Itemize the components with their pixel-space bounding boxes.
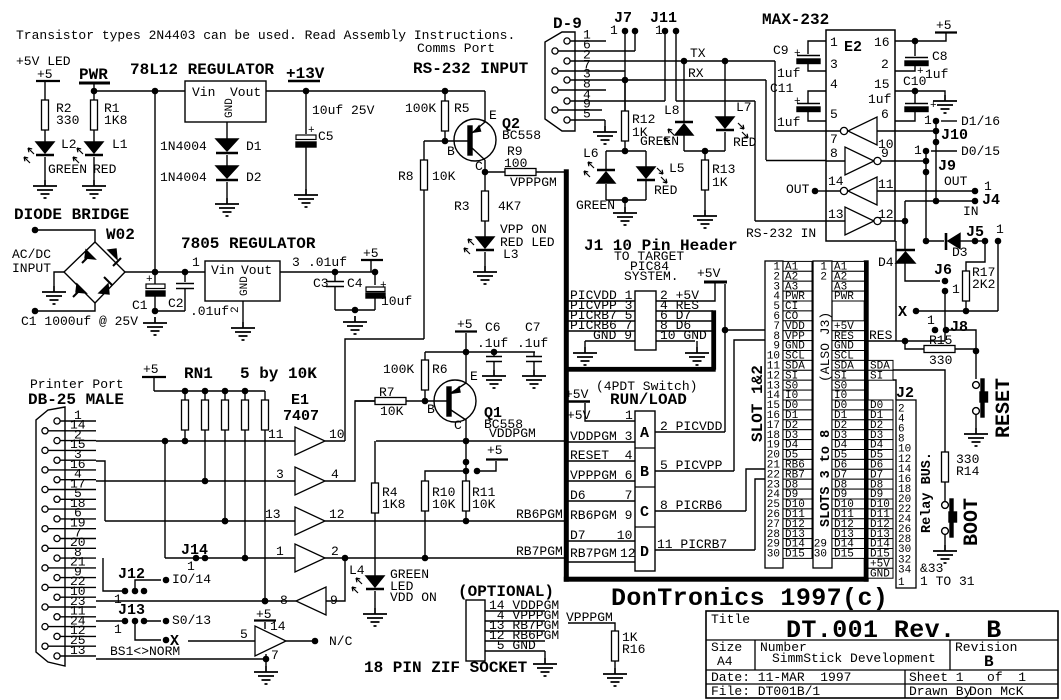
svg-text:1: 1 <box>996 222 1004 237</box>
wire collector <box>484 160 486 172</box>
terminal <box>32 227 37 232</box>
resistor R4 <box>374 441 376 483</box>
svg-text:RED: RED <box>733 135 757 150</box>
svg-text:5 GND: 5 GND <box>489 638 536 653</box>
svg-text:C1: C1 <box>132 298 148 313</box>
svg-text:5 by 10K: 5 by 10K <box>240 365 317 383</box>
svg-text:R5: R5 <box>454 101 470 116</box>
svg-text:3: 3 <box>830 57 838 72</box>
resistor R13 <box>704 151 706 160</box>
svg-text:GND: GND <box>870 568 890 580</box>
wire row pin3 jog <box>96 461 105 521</box>
ground <box>533 658 557 676</box>
svg-text:Don McK: Don McK <box>969 684 1024 699</box>
wire collector Q1 <box>465 419 467 441</box>
svg-text:GREEN: GREEN <box>576 198 615 213</box>
wire SI to J2 <box>893 380 896 400</box>
svg-text:Relay BUS.: Relay BUS. <box>920 452 935 533</box>
svg-text:(ALSO J3): (ALSO J3) <box>818 312 833 382</box>
svg-text:L3: L3 <box>503 247 519 262</box>
ground <box>363 608 387 626</box>
wire D9 pin4 row <box>570 100 755 102</box>
wire ZIF rows <box>485 611 545 651</box>
svg-text:1uf: 1uf <box>777 66 800 81</box>
ground <box>685 347 709 365</box>
svg-text:1N4004: 1N4004 <box>160 139 207 154</box>
LED L8 <box>683 61 685 122</box>
connector J3 pin column <box>813 261 832 568</box>
svg-text:L1: L1 <box>112 137 128 152</box>
svg-text:.01uf: .01uf <box>190 304 229 319</box>
ground <box>42 286 66 304</box>
svg-text:D1: D1 <box>246 139 262 154</box>
svg-text:1 TO 31: 1 TO 31 <box>920 574 975 589</box>
svg-text:+5: +5 <box>363 246 379 261</box>
jumper J9 <box>923 158 928 163</box>
wire jog 165 <box>96 441 165 558</box>
svg-text:18 PIN ZIF SOCKET: 18 PIN ZIF SOCKET <box>364 659 528 677</box>
node junction <box>91 88 96 93</box>
svg-text:.1uf: .1uf <box>477 336 508 351</box>
connector J2 <box>896 400 916 588</box>
ground <box>613 207 637 225</box>
ground <box>693 210 717 228</box>
diode D1 <box>216 139 238 151</box>
svg-text:34: 34 <box>898 564 912 576</box>
svg-text:3: 3 <box>292 255 300 270</box>
wire switch left rows <box>568 442 635 562</box>
svg-text:IN: IN <box>963 204 979 219</box>
wire row D0 <box>96 440 345 442</box>
svg-text:Vout: Vout <box>230 85 261 100</box>
node junction <box>622 148 627 153</box>
switch RESET <box>973 382 980 389</box>
svg-text:S0/13: S0/13 <box>172 613 211 628</box>
svg-text:1: 1 <box>192 255 200 270</box>
svg-text:L8: L8 <box>664 103 680 118</box>
wire J8 to switch <box>946 330 976 351</box>
bus thick J1 right <box>712 311 715 369</box>
svg-text:Drawn By: Drawn By <box>909 684 972 699</box>
svg-text:J13: J13 <box>118 602 145 619</box>
resistor R16 <box>612 631 619 661</box>
svg-text:5: 5 <box>583 107 591 122</box>
svg-text:RB7PGM: RB7PGM <box>516 544 563 559</box>
wire base Q1 <box>425 400 447 402</box>
svg-text:1: 1 <box>914 143 922 158</box>
wire row to J14 <box>165 557 295 559</box>
svg-text:D2: D2 <box>246 170 262 185</box>
ground <box>294 189 318 207</box>
switch BOOT <box>942 502 949 509</box>
svg-text:12: 12 <box>329 507 345 522</box>
svg-text:File: DT001B/1: File: DT001B/1 <box>711 684 820 699</box>
svg-text:J6: J6 <box>934 262 952 279</box>
wire LED pair rails <box>606 151 646 200</box>
wire RES row <box>867 332 945 341</box>
svg-text:DIODE BRIDGE: DIODE BRIDGE <box>14 206 129 224</box>
node +5 divider <box>474 468 479 473</box>
inverter E2-B <box>845 147 874 175</box>
svg-text:8: 8 <box>830 146 838 161</box>
svg-text:1: 1 <box>952 282 960 297</box>
svg-text:C: C <box>454 418 462 433</box>
svg-text:+5: +5 <box>457 317 473 332</box>
svg-text:L4: L4 <box>349 563 365 578</box>
capacitor C8 <box>914 41 916 56</box>
LED L3 <box>476 237 494 248</box>
svg-text:A: A <box>640 425 649 442</box>
buffer E1-1 <box>295 427 325 455</box>
capacitor C2 <box>176 272 194 311</box>
wire DB-25 pin rows <box>48 421 96 656</box>
svg-text:R6: R6 <box>432 362 448 377</box>
svg-text:10: 10 <box>329 427 345 442</box>
svg-text:L5: L5 <box>669 161 685 176</box>
svg-text:1: 1 <box>610 23 618 38</box>
svg-text:1uf: 1uf <box>868 92 891 107</box>
svg-text:1: 1 <box>625 408 633 423</box>
svg-text:N/C: N/C <box>329 634 353 649</box>
svg-text:Date: 11-MAR 1997: Date: 11-MAR 1997 <box>711 670 851 685</box>
wire <box>54 272 64 286</box>
svg-text:BC558: BC558 <box>502 128 541 143</box>
svg-text:.01uf: .01uf <box>308 255 347 270</box>
regulator U 78L12 <box>185 81 266 122</box>
resistor network RN1 rail <box>154 390 265 392</box>
terminal <box>32 308 37 313</box>
svg-text:RUN/LOAD: RUN/LOAD <box>610 391 687 409</box>
svg-text:9: 9 <box>881 146 889 161</box>
ground <box>33 180 57 198</box>
svg-text:D15: D15 <box>785 549 805 561</box>
connector ZIF box <box>466 600 485 661</box>
svg-text:D3: D3 <box>952 245 968 260</box>
svg-text:E: E <box>470 369 478 384</box>
svg-text:Vin: Vin <box>211 263 234 278</box>
svg-text:E2: E2 <box>844 39 862 56</box>
wire J4 in <box>905 200 975 202</box>
svg-text:13: 13 <box>828 207 844 222</box>
svg-text:RS-232 INPUT: RS-232 INPUT <box>413 60 529 78</box>
svg-text:+5: +5 <box>936 18 952 33</box>
diode D4 <box>896 249 915 252</box>
wire J1 right rows <box>656 282 715 341</box>
svg-text:1: 1 <box>114 622 122 637</box>
wire VPPPGM <box>568 623 615 631</box>
LED L2 <box>36 142 54 153</box>
svg-text:GND: GND <box>224 98 236 118</box>
ground <box>215 198 239 216</box>
svg-text:DonTronics 1997(c): DonTronics 1997(c) <box>611 584 888 613</box>
wire pin16 <box>895 33 946 41</box>
svg-text:5: 5 <box>830 107 838 122</box>
svg-text:RES: RES <box>869 328 893 343</box>
wire 7805 out <box>280 271 375 273</box>
resistor R10 <box>425 471 466 481</box>
svg-text:VDD ON: VDD ON <box>390 590 437 605</box>
node junction <box>622 197 627 202</box>
svg-text:14: 14 <box>828 174 844 189</box>
wire TX into pin7 <box>775 130 826 132</box>
svg-text:RB6PGM 9: RB6PGM 9 <box>570 508 632 523</box>
svg-text:2: 2 <box>820 271 827 283</box>
buffer E1-3 <box>295 507 325 535</box>
buffer E1-6 <box>255 626 286 656</box>
svg-text:SYSTEM.: SYSTEM. <box>624 269 679 284</box>
capacitor C4 <box>374 272 376 285</box>
svg-text:10K: 10K <box>432 169 456 184</box>
svg-text:7: 7 <box>271 648 279 663</box>
wire pin11 out <box>895 190 975 192</box>
wire <box>45 81 94 100</box>
svg-text:+5V: +5V <box>565 387 589 402</box>
svg-text:C9: C9 <box>773 43 789 58</box>
bus thick vertical <box>565 170 569 581</box>
svg-text:10K: 10K <box>380 404 404 419</box>
svg-text:B: B <box>427 402 435 417</box>
wire PICVDD <box>655 284 725 432</box>
wire J1 left rows <box>568 301 635 341</box>
svg-text:100K: 100K <box>383 362 414 377</box>
wire <box>926 240 944 242</box>
svg-text:4: 4 <box>830 77 838 92</box>
svg-text:IO/14: IO/14 <box>172 572 211 587</box>
svg-text:INPUT: INPUT <box>12 261 51 276</box>
svg-text:2: 2 <box>881 57 889 72</box>
wire PICVPP <box>655 340 765 471</box>
IC E2 box <box>826 30 895 241</box>
svg-text:+5V: +5V <box>567 408 591 423</box>
bus thick bottom <box>565 577 868 581</box>
wire RX into pin8 <box>766 160 826 162</box>
svg-text:OUT: OUT <box>944 174 968 189</box>
svg-text:L7: L7 <box>736 100 752 115</box>
svg-text:GREEN: GREEN <box>48 162 87 177</box>
buffer E1-2 <box>295 467 325 495</box>
wire <box>226 122 228 139</box>
svg-text:330: 330 <box>929 353 952 368</box>
resistor R8 <box>423 141 425 160</box>
wire PICRB7 <box>655 479 765 550</box>
svg-text:C: C <box>640 504 649 521</box>
svg-text:+5V: +5V <box>697 266 721 281</box>
ground <box>254 666 278 684</box>
resistor R3 <box>484 172 486 191</box>
connector DB-25 pins <box>54 418 60 424</box>
svg-text:RED: RED <box>93 162 117 177</box>
svg-text:D15: D15 <box>834 549 854 561</box>
wire <box>45 130 94 142</box>
svg-text:1uf: 1uf <box>925 67 948 82</box>
wire row RB7PGM <box>325 557 566 559</box>
svg-text:RN1: RN1 <box>184 365 213 383</box>
svg-text:B: B <box>640 464 649 481</box>
ground <box>482 370 506 388</box>
ground <box>933 95 957 113</box>
svg-text:Title: Title <box>711 612 750 627</box>
svg-text:30: 30 <box>814 549 827 561</box>
svg-text:E1: E1 <box>291 392 309 409</box>
wire J1 gnd left <box>584 341 586 347</box>
label J3 signal names <box>832 261 865 271</box>
svg-text:2: 2 <box>331 544 339 559</box>
svg-text:MAX-232: MAX-232 <box>762 11 829 29</box>
wire gate6 gnd <box>265 654 267 666</box>
svg-text:11: 11 <box>268 427 284 442</box>
wire Q1 divider <box>465 441 467 481</box>
wire pin15 <box>895 91 945 95</box>
wire base <box>445 140 468 142</box>
svg-text:GREEN: GREEN <box>640 134 679 149</box>
buffer E1-5 <box>296 587 326 615</box>
svg-text:X: X <box>898 304 907 321</box>
svg-text:RB6PGM: RB6PGM <box>516 507 563 522</box>
svg-text:1: 1 <box>927 313 935 328</box>
wire bridge out <box>125 271 205 273</box>
resistor R14 <box>942 452 949 482</box>
wire RS-232 IN net <box>754 101 756 221</box>
wire <box>226 155 228 166</box>
wire PICRB6 <box>655 469 765 511</box>
svg-text:13: 13 <box>265 507 281 522</box>
svg-text:Comms Port: Comms Port <box>417 41 495 56</box>
svg-text:W02: W02 <box>106 226 135 244</box>
svg-text:C8: C8 <box>932 49 948 64</box>
resistor R11 <box>463 481 470 511</box>
svg-text:RX: RX <box>688 66 704 81</box>
svg-text:J4: J4 <box>982 192 1000 209</box>
svg-text:J8: J8 <box>950 319 968 336</box>
bus thick J1 bottom <box>566 368 715 371</box>
svg-text:C3: C3 <box>313 276 329 291</box>
wire pin12 net <box>895 201 905 221</box>
ground <box>593 126 617 144</box>
svg-text:10K: 10K <box>472 497 496 512</box>
wire gate6 out <box>286 640 315 642</box>
connector J1 box <box>635 291 656 350</box>
svg-text:PWR: PWR <box>834 291 854 303</box>
svg-text:C2: C2 <box>168 296 184 311</box>
jumper J10 <box>933 128 938 133</box>
svg-text:+5: +5 <box>143 362 159 377</box>
resistor R1 <box>91 100 98 130</box>
svg-text:VDDPGM: VDDPGM <box>489 426 536 441</box>
wire <box>155 310 185 312</box>
ground <box>603 668 627 686</box>
capacitor C1 <box>154 272 156 284</box>
wire <box>944 534 946 545</box>
ground <box>933 545 957 563</box>
wire <box>45 157 94 180</box>
wire <box>335 309 375 311</box>
svg-text:1N4004: 1N4004 <box>160 170 207 185</box>
svg-text:5: 5 <box>240 627 248 642</box>
svg-text:11: 11 <box>878 177 894 192</box>
ground <box>143 317 167 335</box>
svg-text:PWR: PWR <box>79 66 108 84</box>
svg-text:30: 30 <box>767 549 780 561</box>
resistor R2 <box>42 100 49 130</box>
wire <box>975 414 977 428</box>
svg-text:C5: C5 <box>318 129 334 144</box>
ground <box>573 347 597 365</box>
wire E2 corner to RES <box>895 241 897 341</box>
svg-text:1uf: 1uf <box>777 115 800 130</box>
resistor R6 <box>424 352 426 360</box>
svg-text:1: 1 <box>830 35 838 50</box>
svg-text:10K: 10K <box>432 497 456 512</box>
wire emitter Q1 <box>465 352 467 383</box>
svg-text:2K2: 2K2 <box>972 277 995 292</box>
wire pin9 out <box>895 160 926 162</box>
svg-text:3: 3 <box>276 467 284 482</box>
svg-text:15: 15 <box>874 77 890 92</box>
svg-text:OUT: OUT <box>786 182 810 197</box>
connector DB-25 <box>36 407 65 666</box>
resistor network RN1 elements <box>184 391 186 400</box>
wire J5 to X <box>997 241 999 311</box>
ground <box>964 428 988 446</box>
svg-text:C6: C6 <box>485 320 501 335</box>
wire buffer5 in <box>326 558 345 601</box>
diode D2 <box>216 166 238 178</box>
svg-text:X: X <box>170 633 179 650</box>
label relay bus names <box>868 360 893 370</box>
svg-text:RS-232 IN: RS-232 IN <box>746 226 816 241</box>
svg-text:AC/DC: AC/DC <box>12 247 51 262</box>
transistor Q1 <box>434 380 476 422</box>
svg-text:J9: J9 <box>938 158 956 175</box>
transistor Q2 <box>454 119 496 161</box>
svg-text:1: 1 <box>276 544 284 559</box>
svg-text:RED: RED <box>654 183 678 198</box>
svg-text:Vin: Vin <box>192 85 215 100</box>
svg-text:BOOT: BOOT <box>961 498 984 546</box>
wire raw DC rail <box>94 91 185 272</box>
svg-text:L2: L2 <box>61 137 77 152</box>
svg-text:B: B <box>984 653 994 671</box>
svg-text:Sheet 1 of 1: Sheet 1 of 1 <box>909 670 1026 685</box>
svg-text:+: + <box>930 100 937 112</box>
wire buffer5 out row <box>96 600 296 602</box>
wire gate6 in <box>188 640 255 642</box>
svg-text:C4: C4 <box>347 276 363 291</box>
svg-text:D: D <box>640 544 649 561</box>
svg-text:1: 1 <box>898 577 905 589</box>
label slot signal names <box>783 261 812 271</box>
wire D9 stubs <box>558 41 635 120</box>
svg-text:A4: A4 <box>717 654 733 669</box>
svg-text:E: E <box>489 108 497 123</box>
svg-text:L6: L6 <box>583 146 599 161</box>
svg-text:+: + <box>794 48 801 60</box>
svg-text:R8: R8 <box>398 169 414 184</box>
svg-text:B: B <box>447 144 455 159</box>
svg-text:10uf 25V: 10uf 25V <box>312 103 375 118</box>
wire emitter <box>484 91 486 122</box>
wire D9 pin5 gnd <box>604 120 606 126</box>
svg-text:GND: GND <box>239 276 251 296</box>
resistor R15 <box>905 341 924 349</box>
svg-text:C10: C10 <box>903 74 926 89</box>
svg-text:330: 330 <box>56 113 79 128</box>
switch S1 box <box>635 411 655 571</box>
wire +13V rail <box>266 90 485 92</box>
svg-text:J10: J10 <box>941 127 968 144</box>
capacitor C3 <box>326 272 344 310</box>
titleblock frame <box>706 611 1058 698</box>
